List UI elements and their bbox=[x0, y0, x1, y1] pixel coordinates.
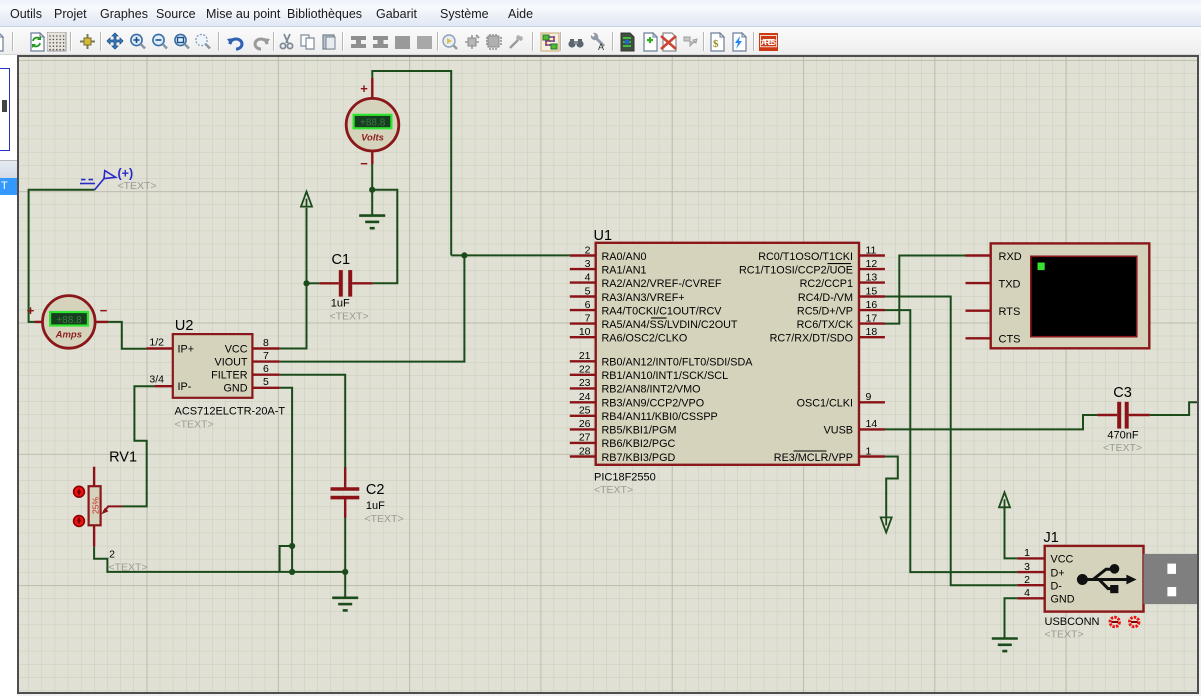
svg-text:FILTER: FILTER bbox=[211, 370, 248, 382]
svg-text:1/2: 1/2 bbox=[149, 337, 164, 349]
svg-text:<TEXT>: <TEXT> bbox=[175, 419, 214, 431]
wire voltmeter- to ground bbox=[371, 164, 373, 215]
top window strip bbox=[0, 0, 1201, 4]
svg-text:RB6/KBI2/PGC: RB6/KBI2/PGC bbox=[602, 438, 676, 450]
wire U1 TX to terminal RXD bbox=[885, 256, 966, 324]
U2 pin GND (5) bbox=[252, 387, 279, 389]
junction RA0 node bbox=[461, 252, 467, 258]
svg-text:PIC18F2550: PIC18F2550 bbox=[594, 472, 656, 484]
svg-text:RC2/CCP1: RC2/CCP1 bbox=[800, 278, 853, 290]
svg-text:RC7/RX/DT/SDO: RC7/RX/DT/SDO bbox=[770, 333, 853, 345]
svg-text:6: 6 bbox=[263, 363, 269, 375]
J1 pin 2 D- bbox=[1017, 584, 1044, 586]
svg-text:4: 4 bbox=[585, 271, 591, 283]
svg-text:RXD: RXD bbox=[999, 251, 1022, 263]
ground below voltmeter bbox=[359, 216, 385, 229]
svg-text:RB7/KBI3/PGD: RB7/KBI3/PGD bbox=[602, 452, 676, 464]
svg-text:D+: D+ bbox=[1051, 567, 1065, 579]
USB plug body bbox=[1144, 554, 1198, 604]
svg-text:RTS: RTS bbox=[999, 306, 1021, 318]
svg-text:470nF: 470nF bbox=[1107, 430, 1138, 442]
svg-text:6: 6 bbox=[585, 299, 591, 311]
terminal pin RTS bbox=[966, 310, 991, 312]
capacitor C1 bbox=[319, 252, 373, 323]
overline MCLR bbox=[794, 450, 827, 452]
U1 pin 6 RA4/T0CKI/C1OUT/RCV bbox=[570, 309, 596, 311]
svg-text:GND: GND bbox=[1051, 594, 1075, 606]
svg-text:ARES: ARES bbox=[761, 38, 777, 47]
svg-text:11: 11 bbox=[866, 244, 877, 256]
svg-text:3/4: 3/4 bbox=[149, 374, 164, 386]
power MCLR down arrow bbox=[881, 517, 892, 532]
J1 mount hole 2 bbox=[1130, 617, 1139, 626]
wire U1 MCLR pulldown bbox=[885, 457, 898, 518]
U2 pin IP+ (1/2) bbox=[147, 347, 173, 349]
svg-text:22: 22 bbox=[579, 364, 591, 376]
U1 pin 24 RB3/AN9/CCP2/VPO bbox=[570, 401, 596, 403]
wire rail to C1 left bbox=[307, 282, 320, 284]
svg-text:RV1: RV1 bbox=[109, 450, 137, 466]
U1 pin 27 RB6/KBI2/PGC bbox=[570, 442, 596, 444]
svg-text:<TEXT>: <TEXT> bbox=[118, 180, 157, 192]
U2 pin FILTER (6) bbox=[252, 374, 279, 376]
U1 pin 10 RA6/OSC2/CLKO bbox=[570, 336, 596, 338]
U1 pin 18 RC7/RX/DT/SDO bbox=[859, 336, 885, 338]
svg-text:RA4/T0CKI/C1OUT/RCV: RA4/T0CKI/C1OUT/RCV bbox=[602, 305, 723, 317]
svg-text:VUSB: VUSB bbox=[824, 425, 853, 437]
svg-text:RA6/OSC2/CLKO: RA6/OSC2/CLKO bbox=[602, 333, 688, 345]
U1 pin 7 RA5/AN4/SS/LVDIN/C2OUT bbox=[570, 322, 596, 324]
svg-text:9: 9 bbox=[866, 391, 872, 403]
U1 pin 21 RB0/AN12/INT0/FLT0/SDI/SDA bbox=[570, 360, 596, 362]
svg-text:RC4/D-/VM: RC4/D-/VM bbox=[798, 292, 853, 304]
ground below J1 bbox=[992, 639, 1018, 652]
svg-text:U2: U2 bbox=[175, 318, 194, 334]
svg-text:−: − bbox=[360, 156, 368, 171]
U1 pin 26 RB5/KBI1/PGM bbox=[570, 428, 596, 430]
svg-text:<TEXT>: <TEXT> bbox=[594, 484, 633, 496]
svg-text:<TEXT>: <TEXT> bbox=[109, 562, 148, 574]
svg-text:IP+: IP+ bbox=[178, 343, 195, 355]
svg-text:RC5/D+/VP: RC5/D+/VP bbox=[797, 305, 853, 317]
svg-text:D-: D- bbox=[1051, 581, 1063, 593]
svg-text:$: $ bbox=[713, 38, 719, 50]
svg-text:VCC: VCC bbox=[1051, 554, 1074, 566]
USB trident logo bbox=[1077, 565, 1136, 594]
DC source (+) probe bbox=[80, 171, 116, 190]
U1 pin 22 RB1/AN10/INT1/SCK/SCL bbox=[570, 374, 596, 376]
wire U2 IP- to RV1 wiper bbox=[122, 386, 154, 506]
wire U1 D- to J1 bbox=[885, 297, 1018, 586]
U2 pin VIOUT (7) bbox=[252, 360, 279, 362]
svg-text:RB1/AN10/INT1/SCK/SCL: RB1/AN10/INT1/SCK/SCL bbox=[602, 370, 729, 382]
U1 pin 4 RA2/AN2/VREF-/CVREF bbox=[570, 281, 596, 283]
U1 pin 23 RB2/AN8/INT2/VMO bbox=[570, 387, 596, 389]
svg-text:VCC: VCC bbox=[225, 343, 248, 355]
svg-text:1: 1 bbox=[866, 445, 872, 457]
wire voltmeter+ riser bbox=[372, 71, 451, 255]
svg-text:+88.8: +88.8 bbox=[56, 315, 82, 326]
USB connector J1 USBCONN bbox=[1017, 530, 1197, 641]
U1 pin 15 RC4/D-/VM bbox=[859, 295, 885, 297]
U1 pin 13 RC2/CCP1 bbox=[859, 281, 885, 283]
ground below C2 bbox=[332, 598, 358, 611]
svg-text:VIOUT: VIOUT bbox=[215, 356, 248, 368]
svg-text:27: 27 bbox=[579, 432, 591, 444]
junction ground jog bbox=[289, 543, 295, 549]
U1 pin 3 RA1/AN1 bbox=[570, 268, 596, 270]
power +5V rail arrow bbox=[301, 192, 312, 207]
U1 pin 5 RA3/AN3/VREF+ bbox=[570, 295, 596, 297]
svg-text:1: 1 bbox=[1024, 547, 1030, 559]
svg-text:RC6/TX/CK: RC6/TX/CK bbox=[797, 319, 854, 331]
wire C3 right to edge bbox=[1150, 402, 1200, 415]
svg-text:RA3/AN3/VREF+: RA3/AN3/VREF+ bbox=[602, 292, 685, 304]
svg-text:RC0/T1OSO/T1CKI: RC0/T1OSO/T1CKI bbox=[758, 251, 853, 263]
junction ground rail / U2 GND bbox=[289, 569, 295, 575]
svg-text:1uF: 1uF bbox=[331, 298, 350, 310]
svg-text:GND: GND bbox=[224, 383, 248, 395]
svg-text:<TEXT>: <TEXT> bbox=[330, 311, 369, 323]
RV1 down button bbox=[74, 516, 85, 527]
svg-text:28: 28 bbox=[579, 445, 591, 457]
svg-text:RA5/AN4/SS/LVDIN/C2OUT: RA5/AN4/SS/LVDIN/C2OUT bbox=[602, 319, 738, 331]
svg-text:RE3/MCLR/VPP: RE3/MCLR/VPP bbox=[774, 452, 853, 464]
svg-text:3: 3 bbox=[585, 258, 591, 270]
svg-text:RC1/T1OSI/CCP2/UOE: RC1/T1OSI/CCP2/UOE bbox=[739, 264, 853, 276]
U2 pin IP- (3/4) bbox=[154, 385, 173, 387]
wire +5V to J1 VCC bbox=[1005, 507, 1018, 558]
junction ground rail / C2 bbox=[342, 569, 348, 575]
wire U2 VIOUT to RA0 node bbox=[280, 255, 465, 361]
terminal pin TXD bbox=[966, 282, 991, 284]
svg-text:13: 13 bbox=[866, 271, 878, 283]
microcontroller U1 PIC18F2550 bbox=[570, 228, 885, 496]
svg-text:<TEXT>: <TEXT> bbox=[365, 513, 404, 525]
svg-text:USBCONN: USBCONN bbox=[1045, 616, 1100, 628]
wire ground rail jog bbox=[280, 546, 293, 572]
svg-text:5: 5 bbox=[585, 285, 591, 297]
svg-text:RA1/AN1: RA1/AN1 bbox=[602, 264, 647, 276]
svg-text:U1: U1 bbox=[594, 228, 613, 244]
svg-text:+: + bbox=[27, 303, 35, 318]
svg-text:25: 25 bbox=[579, 405, 591, 417]
U1 pin 11 RC0/T1OSO/T1CKI bbox=[859, 254, 885, 256]
capacitor C3 bbox=[1097, 385, 1150, 454]
svg-text:21: 21 bbox=[579, 350, 591, 362]
svg-text:3: 3 bbox=[1024, 561, 1030, 573]
wire U1 VUSB to C3 bbox=[885, 415, 1098, 429]
svg-text:25%: 25% bbox=[91, 497, 101, 514]
svg-text:26: 26 bbox=[579, 418, 591, 430]
svg-text:2: 2 bbox=[585, 244, 591, 256]
J1 pin 3 D+ bbox=[1017, 571, 1044, 573]
U1 pin 28 RB7/KBI3/PGD bbox=[570, 455, 596, 457]
wire U1 D+ to J1 bbox=[885, 310, 1018, 572]
svg-text:8: 8 bbox=[263, 337, 269, 349]
overline UOE bbox=[828, 263, 852, 265]
J1 pin 1 VCC bbox=[1017, 557, 1044, 559]
svg-text:1uF: 1uF bbox=[366, 500, 385, 512]
svg-text:C3: C3 bbox=[1113, 385, 1132, 401]
svg-text:−: − bbox=[100, 303, 108, 318]
wire C2 bottom to ground bbox=[344, 517, 346, 598]
U1 pin 12 RC1/T1OSI/CCP2/UOE bbox=[859, 268, 885, 270]
wire to U1 RA0 bbox=[451, 254, 570, 256]
svg-text:C2: C2 bbox=[366, 482, 385, 498]
svg-text:OSC1/CLKI: OSC1/CLKI bbox=[797, 398, 853, 410]
svg-text:C1: C1 bbox=[332, 252, 351, 268]
svg-text:18: 18 bbox=[866, 326, 878, 338]
wire U2 GND to ground rail bbox=[280, 388, 293, 572]
junction VCC rail / C1 bbox=[303, 280, 309, 286]
svg-text:10: 10 bbox=[579, 326, 591, 338]
svg-text:16: 16 bbox=[866, 299, 878, 311]
svg-text:+88.8: +88.8 bbox=[360, 118, 386, 129]
svg-text:5: 5 bbox=[263, 376, 269, 388]
svg-text:15: 15 bbox=[866, 285, 878, 297]
U1 pin 1 RE3/MCLR/VPP bbox=[859, 455, 885, 457]
svg-text:RB4/AN11/KBI0/CSSPP: RB4/AN11/KBI0/CSSPP bbox=[602, 411, 718, 423]
power +5V J1 arrow bbox=[999, 492, 1010, 507]
svg-text:A: A bbox=[598, 42, 604, 52]
U1 pin 2 RA0/AN0 bbox=[570, 254, 596, 256]
svg-text:17: 17 bbox=[866, 312, 878, 324]
svg-text:RA0/AN0: RA0/AN0 bbox=[602, 251, 647, 263]
U1 pin 16 RC5/D+/VP bbox=[859, 309, 885, 311]
svg-text:4: 4 bbox=[1024, 587, 1030, 599]
svg-text:RB5/KBI1/PGM: RB5/KBI1/PGM bbox=[602, 425, 677, 437]
terminal pin CTS bbox=[966, 337, 991, 339]
svg-text:Amps: Amps bbox=[55, 330, 82, 341]
svg-text:12: 12 bbox=[866, 258, 878, 270]
svg-text:2: 2 bbox=[1024, 574, 1030, 586]
U1 pin 14 VUSB bbox=[859, 428, 885, 430]
svg-text:<TEXT>: <TEXT> bbox=[1103, 442, 1142, 454]
RV1 up button bbox=[74, 486, 85, 497]
wire ammeter- to U2 IP+ bbox=[108, 322, 146, 349]
svg-text:RB2/AN8/INT2/VMO: RB2/AN8/INT2/VMO bbox=[602, 384, 701, 396]
svg-text:24: 24 bbox=[579, 391, 591, 403]
potentiometer RV1 bbox=[89, 450, 148, 574]
terminal cursor bbox=[1038, 263, 1045, 271]
wire C1 right to gnd node bbox=[372, 190, 397, 283]
svg-text:J1: J1 bbox=[1044, 530, 1059, 546]
junction GND node / C1 bbox=[369, 187, 375, 193]
svg-text:23: 23 bbox=[579, 377, 591, 389]
svg-text:CTS: CTS bbox=[999, 334, 1021, 346]
svg-text:2: 2 bbox=[109, 549, 115, 561]
voltmeter Volts bbox=[346, 78, 399, 171]
capacitor C2 bbox=[331, 467, 404, 525]
svg-text:7: 7 bbox=[585, 312, 591, 324]
U1 pin 17 RC6/TX/CK bbox=[859, 322, 885, 324]
menu bar bbox=[0, 0, 1201, 27]
U1 pin 25 RB4/AN11/KBI0/CSSPP bbox=[570, 415, 596, 417]
virtual terminal bbox=[966, 243, 1150, 348]
J1 mount hole 1 bbox=[1110, 617, 1119, 626]
svg-text:IP-: IP- bbox=[178, 381, 192, 393]
svg-text:RA2/AN2/VREF-/CVREF: RA2/AN2/VREF-/CVREF bbox=[602, 278, 722, 290]
wire U2 VCC to +5V rail bbox=[280, 208, 307, 349]
wire RV1 pin2 ground rail bbox=[94, 547, 345, 572]
terminal pin RXD bbox=[966, 254, 991, 256]
wire source to ammeter+ bbox=[29, 190, 95, 322]
current sensor U2 ACS712 bbox=[147, 318, 286, 431]
svg-text:7: 7 bbox=[263, 350, 269, 362]
svg-text:(+): (+) bbox=[118, 167, 134, 181]
J1 pin 4 GND bbox=[1017, 597, 1044, 599]
svg-text:ACS712ELCTR-20A-T: ACS712ELCTR-20A-T bbox=[175, 406, 286, 418]
svg-text:<TEXT>: <TEXT> bbox=[1045, 629, 1084, 641]
ammeter Amps bbox=[27, 296, 109, 349]
svg-text:RB0/AN12/INT0/FLT0/SDI/SDA: RB0/AN12/INT0/FLT0/SDI/SDA bbox=[602, 357, 754, 369]
svg-text:RB3/AN9/CCP2/VPO: RB3/AN9/CCP2/VPO bbox=[602, 398, 705, 410]
overline SS bbox=[651, 317, 667, 319]
left object selector panel bbox=[0, 55, 17, 696]
wire J1 GND to ground bbox=[1005, 598, 1018, 638]
svg-text:TXD: TXD bbox=[999, 278, 1021, 290]
wire U2 FILTER to C2 top bbox=[280, 375, 346, 468]
U2 pin VCC (8) bbox=[252, 347, 279, 349]
svg-text:+: + bbox=[360, 81, 368, 96]
svg-text:Volts: Volts bbox=[361, 132, 384, 143]
U1 pin 9 OSC1/CLKI bbox=[859, 401, 885, 403]
svg-text:14: 14 bbox=[866, 418, 878, 430]
